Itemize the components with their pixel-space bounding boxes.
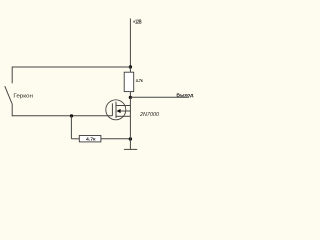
node: supply junction	[129, 65, 132, 68]
wire: bottom horizontal from switch to gate	[12, 115, 112, 117]
wire: drain resistor top lead	[129, 67, 131, 72]
wire: pulldown branch vertical	[70, 116, 72, 139]
svg-text:+12В: +12В	[133, 20, 142, 26]
ground	[124, 139, 137, 149]
svg-text:Геркон: Геркон	[13, 93, 33, 99]
wire: switch top lead (left vertical upper)	[11, 67, 13, 84]
resistor R1 4.7k (drain load)	[124, 72, 134, 91]
wire: drain lead into transistor	[129, 97, 131, 105]
node: drain / output junction	[129, 96, 132, 99]
wire: +12V supply lead	[129, 19, 131, 68]
svg-text:2N7000: 2N7000	[139, 112, 159, 118]
svg-text:4.7к: 4.7к	[86, 136, 96, 141]
wire: pulldown branch horizontal to resistor	[71, 138, 79, 140]
resistor R2 4.7k (gate pulldown)	[79, 136, 101, 142]
wire: drain resistor bottom lead	[129, 92, 131, 98]
wire: source lead	[129, 116, 131, 139]
wire: top horizontal from supply to reed switch	[12, 66, 130, 68]
wire: switch bottom lead (left vertical lower)	[11, 103, 13, 116]
reed switch SW1 lever	[5, 86, 12, 103]
node: source junction	[129, 137, 132, 140]
node: gate / pulldown junction	[70, 114, 73, 117]
transistor Q1 2N7000 (N-MOSFET)	[106, 100, 131, 120]
svg-text:Выход: Выход	[176, 93, 193, 99]
wire: pulldown resistor to source node	[101, 138, 130, 140]
wire: output	[130, 96, 189, 98]
svg-text:4.7к: 4.7к	[136, 78, 144, 83]
